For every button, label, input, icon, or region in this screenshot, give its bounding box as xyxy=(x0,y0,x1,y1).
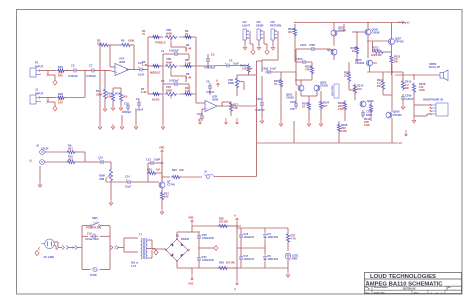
resistor R24 xyxy=(57,65,66,78)
ground xyxy=(111,102,115,110)
svg-text:1/2W: 1/2W xyxy=(419,89,425,92)
svg-text:4K7: 4K7 xyxy=(68,158,73,162)
svg-text:R13: R13 xyxy=(115,92,120,96)
capacitor C204 470pF xyxy=(296,43,330,62)
capacitor C206 47pF xyxy=(290,91,298,111)
svg-text:2K0: 2K0 xyxy=(58,74,63,78)
svg-text:10K: 10K xyxy=(242,67,247,71)
power -V1 arrow xyxy=(405,130,408,136)
connector HEADPHONE JK xyxy=(423,98,448,117)
svg-text:8ohm 1P: 8ohm 1P xyxy=(429,65,440,69)
ground xyxy=(401,104,405,109)
wire xyxy=(75,152,98,162)
wire xyxy=(237,226,241,248)
svg-text:10uF: 10uF xyxy=(125,184,132,188)
svg-text:A: A xyxy=(216,78,218,82)
svg-text:Q209: Q209 xyxy=(367,99,374,103)
wire xyxy=(106,178,125,182)
wire xyxy=(148,159,162,192)
power VSS xyxy=(188,268,194,285)
svg-text:47K: 47K xyxy=(305,68,310,72)
power +A arrow xyxy=(234,213,239,226)
wire xyxy=(262,31,278,72)
pin P2 xyxy=(62,246,75,250)
svg-text:4K7: 4K7 xyxy=(323,104,328,108)
ground xyxy=(412,116,416,123)
ground xyxy=(120,115,124,129)
resistor R9 4K7 xyxy=(66,144,76,154)
ground xyxy=(47,101,58,111)
transistor Q204 bias xyxy=(331,84,339,98)
ground xyxy=(198,246,218,251)
svg-text:2037250-XX: 2037250-XX xyxy=(403,289,416,291)
resistor R26 620 3W xyxy=(218,226,238,270)
svg-text:HEADPHONE JK: HEADPHONE JK xyxy=(423,98,443,102)
wire xyxy=(41,71,56,81)
svg-text:4.7K: 4.7K xyxy=(291,237,297,241)
svg-text:R14: R14 xyxy=(96,89,101,93)
wire xyxy=(367,40,388,58)
wire xyxy=(104,70,105,88)
capacitor C9 0.68uF xyxy=(206,80,215,95)
resistor R5 22K xyxy=(97,39,110,47)
svg-text:1K: 1K xyxy=(344,73,347,77)
svg-text:22K: 22K xyxy=(179,168,184,172)
capacitor C17 100uF/16 xyxy=(239,248,255,268)
capacitor C203 xyxy=(296,57,312,80)
transistor Q207 TIP41C xyxy=(388,23,404,56)
svg-text:A: A xyxy=(234,213,236,217)
resistor R210 1K xyxy=(353,84,363,95)
wire xyxy=(261,76,263,118)
svg-text:TREBLE: TREBLE xyxy=(155,41,166,45)
capacitor C15 xyxy=(98,156,106,164)
wire xyxy=(134,69,148,71)
capacitor C2 0.56uF xyxy=(135,97,144,112)
svg-text:1N4744A: 1N4744A xyxy=(268,235,279,239)
svg-text:C32000: C32000 xyxy=(355,61,365,65)
potentiometer VR1 10K xyxy=(240,63,253,73)
svg-text:C204: C204 xyxy=(300,43,307,47)
svg-text:3.0W: 3.0W xyxy=(341,130,347,133)
svg-text:1.4K: 1.4K xyxy=(142,63,148,67)
transistor Q203 A1266 xyxy=(331,23,346,47)
transistor Q211 xyxy=(327,48,337,60)
svg-text:620K: 620K xyxy=(166,88,172,92)
resistor R20 1M xyxy=(147,168,160,175)
speaker SPKR 8ohm xyxy=(429,62,448,81)
wire xyxy=(124,238,138,252)
svg-text:4558: 4558 xyxy=(212,97,218,101)
wire xyxy=(97,70,110,72)
svg-text:RS405: RS405 xyxy=(181,237,190,241)
wire power box xyxy=(82,226,110,270)
svg-text:1.4K: 1.4K xyxy=(186,75,192,79)
resistor R27 4.7K xyxy=(286,228,296,251)
svg-text:VDD: VDD xyxy=(188,215,194,219)
wire xyxy=(232,65,249,67)
ground xyxy=(154,249,158,255)
svg-text:VSS: VSS xyxy=(188,281,194,285)
capacitor C1 0.033uF xyxy=(161,49,189,60)
resistor R17 47K xyxy=(229,102,238,113)
potentiometer VR2 630K xyxy=(228,77,241,89)
wire xyxy=(161,154,163,159)
bridge rectifier D1 RS405 xyxy=(165,234,189,262)
capacitor C21 1000uF/35 xyxy=(197,248,214,268)
svg-text:C1740: C1740 xyxy=(167,183,175,187)
connector J2 CD IN xyxy=(31,143,49,164)
resistor R12 6.2K xyxy=(184,86,193,96)
ground xyxy=(109,182,113,205)
svg-text:1-1K: 1-1K xyxy=(185,61,191,65)
ground xyxy=(279,87,283,126)
capacitor C19 0.01uF 300V xyxy=(85,231,99,240)
title block xyxy=(365,273,462,295)
capacitor C16 xyxy=(197,112,204,121)
wire xyxy=(65,70,71,71)
svg-text:RED: RED xyxy=(292,257,298,261)
power -A arrow xyxy=(225,118,228,124)
potentiometer VR5 400K TREBLE xyxy=(155,28,178,44)
svg-text:0.033uF: 0.033uF xyxy=(169,79,179,83)
svg-text:1K: 1K xyxy=(274,82,277,86)
ground xyxy=(38,166,42,187)
svg-text:220/0.5W: 220/0.5W xyxy=(371,54,382,57)
svg-text:0.01uF 300v: 0.01uF 300v xyxy=(85,238,99,241)
switch SW1 POWER SW xyxy=(86,216,101,229)
svg-text:6.2K: 6.2K xyxy=(185,89,191,93)
resistor R6 100K xyxy=(121,39,135,47)
svg-text:2XXXX: 2XXXX xyxy=(373,50,381,52)
svg-text:-: - xyxy=(206,102,207,106)
capacitor C13 100pF xyxy=(146,157,160,165)
svg-text:INPUT: INPUT xyxy=(35,92,44,96)
wire xyxy=(217,102,231,116)
wire +V top rail xyxy=(294,22,404,24)
transistor Q7 C1740 xyxy=(159,179,176,188)
fuse F1 xyxy=(90,267,97,277)
wire xyxy=(249,72,257,75)
svg-text:-V1: -V1 xyxy=(398,141,403,145)
power -A arrow xyxy=(234,268,239,291)
wire xyxy=(41,98,56,107)
svg-text:MIDDLE: MIDDLE xyxy=(150,70,161,74)
wire middle row xyxy=(148,65,196,67)
ground xyxy=(111,124,115,129)
svg-text:6.4K: 6.4K xyxy=(141,90,147,94)
svg-text:10uF: 10uF xyxy=(233,61,239,65)
svg-text:8-DEC-2001: 8-DEC-2001 xyxy=(374,292,385,294)
resistor R202 47K xyxy=(288,24,297,62)
capacitor C16 100uF/16 xyxy=(239,228,255,248)
capacitor C201 0.047uF xyxy=(255,97,265,112)
svg-text:470P: 470P xyxy=(309,43,315,47)
resistor R212 22R xyxy=(364,103,373,127)
ground xyxy=(47,74,58,85)
power -A arrow xyxy=(198,118,202,124)
power -A arrow xyxy=(236,118,239,124)
wire xyxy=(295,80,301,85)
capacitor C11 2200pF xyxy=(122,102,131,114)
resistor R214 2.2 xyxy=(377,78,385,91)
resistor R10 4K7 xyxy=(66,155,76,164)
svg-text:22K: 22K xyxy=(97,41,102,45)
wire xyxy=(133,163,148,182)
connector J14 LIGHT xyxy=(242,20,250,40)
ground xyxy=(103,100,107,111)
connector J1 INPUT xyxy=(30,88,44,105)
svg-text:Date:: Date: xyxy=(365,291,370,294)
wire xyxy=(106,162,111,168)
svg-text:630K: 630K xyxy=(99,174,105,178)
svg-text:R20: R20 xyxy=(147,168,152,172)
resistor R8 1.4K xyxy=(184,58,193,68)
svg-text:620 3W: 620 3W xyxy=(219,219,228,223)
svg-text:C2: C2 xyxy=(136,97,140,101)
ground xyxy=(319,121,323,126)
svg-text:R9: R9 xyxy=(186,43,190,47)
svg-text:0.022uF: 0.022uF xyxy=(68,74,78,78)
svg-text:A: A xyxy=(198,119,200,122)
svg-text:C203: C203 xyxy=(296,57,303,61)
svg-text:R211: R211 xyxy=(373,45,380,49)
svg-text:C1: C1 xyxy=(161,49,165,53)
wire xyxy=(157,232,192,268)
resistor R207 2K2 xyxy=(338,101,347,111)
resistor R204 10K xyxy=(319,91,329,121)
svg-text:C4038: C4038 xyxy=(372,31,380,35)
svg-text:R22: R22 xyxy=(172,168,177,172)
wire xyxy=(44,152,66,162)
potentiometer VR8 630K xyxy=(99,168,113,182)
svg-text:1.1A: 1.1A xyxy=(131,264,137,268)
svg-text:R6: R6 xyxy=(121,39,125,43)
diode D4 1N4744A xyxy=(263,228,278,248)
svg-text:1K0: 1K0 xyxy=(58,101,63,105)
ground xyxy=(271,40,275,50)
resistor R21 160 xyxy=(160,191,169,201)
svg-text:C3: C3 xyxy=(211,52,215,56)
svg-text:C13: C13 xyxy=(146,157,151,161)
svg-text:2200pF: 2200pF xyxy=(122,110,131,114)
capacitor C20 1000uF/35 xyxy=(197,233,214,248)
svg-text:0.033uF: 0.033uF xyxy=(169,49,179,53)
wire treble row xyxy=(148,36,196,38)
svg-text:56PF: 56PF xyxy=(366,113,373,117)
power +VDD xyxy=(159,145,165,154)
ground xyxy=(260,118,264,123)
svg-text:1K: 1K xyxy=(302,105,305,109)
resistor R209 1K xyxy=(344,62,351,90)
diode D5 1N4744A xyxy=(263,248,278,268)
ground xyxy=(257,40,261,50)
wire xyxy=(108,45,121,67)
resistor R14 330K xyxy=(96,88,107,100)
wire xyxy=(171,71,192,83)
wire xyxy=(337,24,365,45)
resistor R208 0R2 xyxy=(337,123,347,133)
node tone input xyxy=(147,37,148,94)
svg-text:C202: C202 xyxy=(262,67,269,71)
wire xyxy=(296,72,317,101)
connector J15 SEND xyxy=(256,20,264,40)
svg-text:1: 1 xyxy=(431,292,432,294)
ground xyxy=(286,259,290,277)
transistor Q205 C4038 xyxy=(365,22,380,41)
capacitor C202 10uF xyxy=(262,67,277,74)
svg-text:C6: C6 xyxy=(71,63,75,67)
svg-text:0.22uF: 0.22uF xyxy=(405,97,414,101)
capacitor C8 0.033uF xyxy=(161,79,189,90)
svg-text:C15: C15 xyxy=(98,156,103,160)
svg-text:LOUD TECHNOLOGIES: LOUD TECHNOLOGIES xyxy=(370,274,437,280)
svg-text:SW1: SW1 xyxy=(92,216,98,220)
svg-text:Rev: Rev xyxy=(448,287,451,289)
svg-text:POWER SW: POWER SW xyxy=(86,225,101,229)
resistor R25 620 3W xyxy=(218,216,229,227)
resistor R215 2.2 xyxy=(401,80,411,91)
wire xyxy=(148,163,162,182)
wire xyxy=(54,242,62,249)
resistor R206 1K xyxy=(351,45,359,62)
wire xyxy=(79,70,89,71)
svg-text:-: - xyxy=(116,65,117,69)
svg-text:AC LINE: AC LINE xyxy=(44,255,55,259)
svg-text:AMPEG BA110 SCHEMATIC: AMPEG BA110 SCHEMATIC xyxy=(366,281,443,287)
svg-text:J2: J2 xyxy=(36,143,39,147)
svg-text:R26: R26 xyxy=(219,260,224,264)
svg-text:1K: 1K xyxy=(352,49,355,53)
svg-text:100K: 100K xyxy=(128,39,134,43)
capacitor C209 0.22uF xyxy=(401,94,414,104)
resistor R15 10K xyxy=(107,92,115,103)
pin P4 xyxy=(110,246,124,250)
svg-text:TIP42C: TIP42C xyxy=(393,113,402,117)
ground xyxy=(35,247,40,255)
svg-text:A: A xyxy=(234,287,236,291)
capacitor C6 0.022uF xyxy=(68,63,79,77)
svg-text:1K0: 1K0 xyxy=(123,95,128,99)
svg-text:R23: R23 xyxy=(58,92,63,96)
svg-text:C11: C11 xyxy=(124,102,129,106)
wire xyxy=(110,67,115,72)
svg-text:1.4K: 1.4K xyxy=(186,46,192,50)
svg-text:Sheet: Sheet xyxy=(414,291,419,294)
wire xyxy=(65,71,85,98)
wire xyxy=(171,42,192,53)
svg-text:C7: C7 xyxy=(89,63,93,67)
svg-text:1K0: 1K0 xyxy=(357,87,362,91)
resistor R218 100 xyxy=(412,82,425,94)
transistor Q209 xyxy=(360,99,374,107)
power +A xyxy=(216,78,220,87)
wire xyxy=(308,110,310,121)
ground xyxy=(119,102,123,110)
connector J3 line out xyxy=(204,170,214,179)
svg-text:INPUT: INPUT xyxy=(35,65,44,69)
resistor R23 xyxy=(57,92,66,105)
svg-text:FUSE: FUSE xyxy=(90,273,97,277)
svg-text:1: 1 xyxy=(441,292,442,294)
wire xyxy=(222,61,257,177)
capacitor C10 10uF xyxy=(137,61,145,77)
svg-text:SEND: SEND xyxy=(256,23,264,27)
svg-text:C4238: C4238 xyxy=(320,84,328,88)
wire xyxy=(196,100,205,114)
capacitor C207 56pF xyxy=(361,110,373,118)
svg-text:TIP41C: TIP41C xyxy=(395,40,404,44)
svg-text:VR8: VR8 xyxy=(99,177,105,181)
svg-text:0.022uF: 0.022uF xyxy=(86,74,96,78)
svg-text:0.5W: 0.5W xyxy=(338,108,344,111)
ground xyxy=(250,31,255,54)
resistor R201 1K xyxy=(274,78,283,88)
resistor R19 xyxy=(160,162,163,165)
wire xyxy=(147,240,157,258)
capacitor C3 0.0033uF xyxy=(204,52,216,69)
wire xyxy=(273,72,296,78)
transistor Q206 C3200 xyxy=(355,58,377,72)
resistor R4 75 xyxy=(142,29,161,39)
wire xyxy=(237,61,262,96)
svg-text:RETURN: RETURN xyxy=(270,23,281,27)
svg-text:100uF/16: 100uF/16 xyxy=(244,258,255,261)
wire bass row xyxy=(148,93,196,95)
svg-text:1N4744A: 1N4744A xyxy=(268,257,279,261)
svg-text:10uF: 10uF xyxy=(138,73,145,77)
resistor R22 22K xyxy=(171,168,202,179)
capacitor C14 10uF xyxy=(125,175,133,189)
transistor Q208 TIP42C xyxy=(386,110,402,118)
ground xyxy=(98,55,102,129)
svg-text:1000uF/35: 1000uF/35 xyxy=(202,237,214,240)
svg-text:T1: T1 xyxy=(139,232,143,236)
svg-text:4K7: 4K7 xyxy=(68,147,73,151)
transistor Q202 C4238 xyxy=(314,81,328,91)
wire output rail xyxy=(367,64,403,112)
svg-text:630K: 630K xyxy=(228,81,234,85)
ground xyxy=(134,110,138,129)
svg-text:+V1: +V1 xyxy=(405,20,410,24)
transformer T1 xyxy=(131,232,147,267)
resistor R205 1K xyxy=(302,101,311,111)
svg-text:100uF/16: 100uF/16 xyxy=(244,236,255,239)
wire xyxy=(414,92,430,116)
svg-text:BASS: BASS xyxy=(152,97,160,101)
svg-text:Q204 TRIM: Q204 TRIM xyxy=(331,85,334,96)
svg-text:C19: C19 xyxy=(87,231,92,235)
resistor R6B 75 xyxy=(184,29,193,39)
LED1 RED xyxy=(285,253,299,261)
ground xyxy=(243,40,247,50)
capacitor C7 0.022uF xyxy=(86,63,97,77)
svg-text:100P: 100P xyxy=(154,157,160,161)
wire power amp verticals xyxy=(339,85,371,143)
svg-text:VDD: VDD xyxy=(159,145,165,149)
resistor R213 0.5 3W xyxy=(390,55,401,76)
resistor R7 6.4K xyxy=(141,87,161,96)
svg-text:0.5W: 0.5W xyxy=(364,124,370,127)
ground xyxy=(161,60,165,129)
wire xyxy=(204,65,224,68)
svg-text:C14: C14 xyxy=(125,175,130,179)
connector AC LINE xyxy=(41,239,54,259)
connector J16 RETURN xyxy=(270,20,281,40)
svg-text:400K: 400K xyxy=(166,31,172,35)
wire xyxy=(214,121,339,177)
svg-text:10K: 10K xyxy=(107,95,112,99)
